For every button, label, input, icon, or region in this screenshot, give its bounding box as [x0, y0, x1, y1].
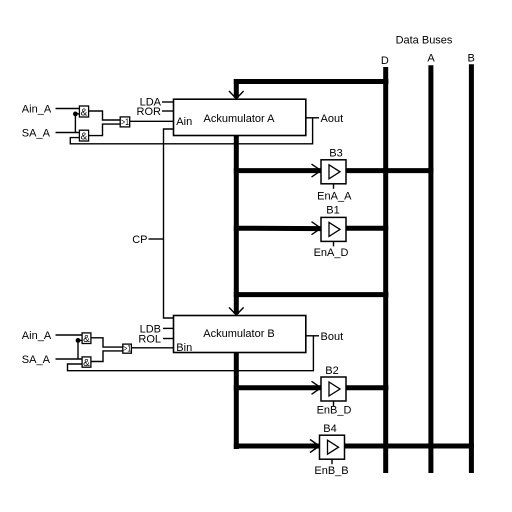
svg-text:EnA_A: EnA_A [317, 190, 352, 202]
svg-text:Ain_A: Ain_A [22, 330, 52, 342]
wire Aout [306, 117, 319, 119]
OR gate G6 (bottom) [123, 344, 132, 354]
central thick bus below A [234, 136, 239, 315]
AND gate G1 (top) [79, 106, 88, 118]
label ROL with pin wire [138, 334, 173, 346]
enable stub B4 [331, 459, 333, 464]
wire thick: bus D link to B input [234, 292, 389, 297]
AND gate G4 [82, 333, 91, 345]
label LDA with pin wire [140, 97, 174, 109]
wire G4 output to OR [91, 338, 123, 347]
buffer B4 [320, 435, 345, 459]
buffer B3 [321, 160, 346, 184]
wire Ain_A to AND gate [56, 108, 80, 110]
svg-text:Ain_A: Ain_A [22, 104, 52, 116]
wire Bout [306, 335, 319, 337]
svg-text:Ackumulator B: Ackumulator B [203, 328, 275, 340]
svg-text:Bin: Bin [176, 342, 192, 354]
wire Ain_A to AND gate (bottom) [56, 334, 83, 336]
wire G1 output to OR [89, 111, 121, 120]
central thick bus below B [234, 353, 239, 450]
wire G2 output to OR [89, 124, 121, 136]
arrow into B1 [312, 222, 322, 235]
wire thick: A out to buffer B3 [234, 168, 321, 173]
AND gate G2 [79, 130, 88, 142]
wire thick: B out to buffer B2 [234, 385, 321, 390]
bus D [383, 67, 388, 473]
wire junction to AND input (bottom) [78, 339, 82, 341]
svg-text:Ackumulator A: Ackumulator A [204, 113, 276, 125]
wire thick: B1 output to bus D [346, 226, 388, 231]
svg-text:B1: B1 [326, 205, 339, 217]
enable stub B3 [333, 184, 335, 189]
wire junction down to SA_A (bottom) [77, 340, 79, 359]
svg-text:SA_A: SA_A [22, 128, 51, 140]
enable stub B2 [333, 401, 335, 406]
wire Aout feedback to G2 input [70, 118, 312, 144]
svg-text:B3: B3 [329, 148, 342, 160]
svg-text:&: & [81, 107, 88, 118]
OR gate G3 (top) [120, 117, 130, 127]
svg-text:&: & [83, 334, 90, 345]
arrow into B4 [310, 440, 320, 453]
svg-text:&: & [81, 132, 88, 143]
wire OR output to Ain pin [130, 120, 174, 122]
accumulator A box (Ackumulator A) [174, 99, 306, 135]
wire Bout feedback to G5 input [68, 336, 314, 371]
AND gate G5 [82, 357, 91, 369]
buffer B1 [321, 217, 346, 241]
svg-text:B4: B4 [323, 423, 336, 435]
wire CP chain (A CP pin to B CP pin) [164, 129, 174, 318]
wire thick: B4 output to bus B [345, 444, 475, 449]
svg-text:ROL: ROL [138, 334, 161, 346]
svg-text:B2: B2 [325, 365, 338, 377]
wire thick: B3 output to bus A [346, 168, 433, 173]
svg-text:EnA_D: EnA_D [314, 247, 349, 259]
accumulator B box (Ackumulator B) [174, 316, 306, 354]
arrow into B2 [312, 381, 322, 394]
wire SA_A to AND gates [56, 132, 80, 134]
label LDB with pin wire [140, 323, 174, 335]
wire thick: B out to buffer B4 [234, 444, 319, 449]
svg-text:B: B [468, 53, 475, 65]
svg-text:Bout: Bout [321, 331, 344, 343]
svg-text:>1: >1 [123, 344, 131, 354]
wire: bus D to Ackumulator A load (thick) [234, 79, 389, 98]
bus A [428, 65, 433, 473]
wire OR output to Bin pin [131, 347, 173, 349]
bus B [469, 64, 474, 473]
svg-text:Ain: Ain [176, 116, 192, 128]
svg-text:EnB_B: EnB_B [314, 465, 348, 477]
junction dot (top section) [73, 112, 78, 117]
wire junction to AND gate input [75, 113, 79, 115]
enable stub B1 [333, 241, 335, 246]
wire G5 output to OR [91, 351, 123, 362]
label ROR with pin wire [137, 106, 174, 118]
svg-text:Data Buses: Data Buses [396, 35, 453, 47]
wire thick: A out to buffer B1 [234, 226, 321, 231]
svg-text:EnB_D: EnB_D [317, 405, 352, 417]
arrow into Ackumulator B [229, 307, 244, 315]
junction dot (bottom section) [76, 338, 81, 343]
wire thick: B2 output to bus D [346, 385, 388, 390]
svg-text:CP: CP [132, 234, 147, 246]
svg-text:D: D [381, 55, 389, 67]
svg-text:&: & [83, 358, 90, 369]
wire SA_A to AND gates (bottom) [56, 358, 83, 360]
svg-text:A: A [427, 53, 435, 65]
svg-text:ROR: ROR [137, 106, 162, 118]
buffer B2 [321, 377, 346, 401]
svg-text:SA_A: SA_A [22, 354, 51, 366]
arrow into Ackumulator A [229, 91, 244, 99]
svg-text:Aout: Aout [321, 113, 344, 125]
wire junction down to SA_A [74, 114, 76, 133]
svg-text:>1: >1 [121, 117, 129, 127]
label CP with wire [132, 234, 163, 246]
arrow into B3 [312, 164, 322, 177]
